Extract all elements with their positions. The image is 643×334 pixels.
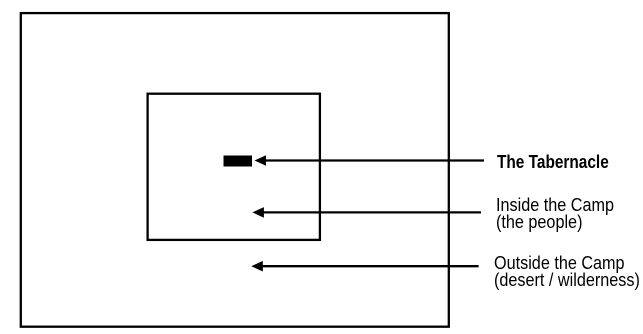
arrow to inside the camp (252, 207, 481, 218)
arrow to outside the camp (251, 261, 478, 272)
label: Inside the Camp / (the people) (496, 197, 614, 231)
outer rectangle (the camp boundary) (21, 13, 449, 327)
label: The Tabernacle (497, 152, 609, 172)
label: Outside the Camp / (desert / wilderness) (494, 255, 640, 289)
tabernacle (filled block) (224, 156, 253, 167)
arrow to tabernacle (255, 155, 485, 166)
inner rectangle (the camp) (148, 94, 320, 240)
